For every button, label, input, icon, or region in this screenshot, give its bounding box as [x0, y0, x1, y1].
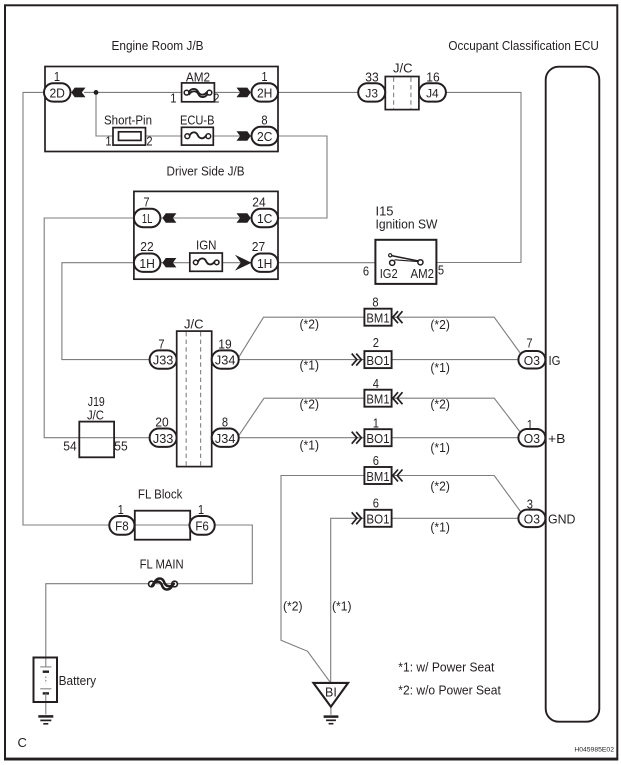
connector 2H: [252, 83, 279, 101]
wire 2D to battery feed (left vertical): [23, 92, 112, 525]
wire ECU-B to 2C: [212, 135, 240, 137]
wire BM1-6 right to O3 GND diagonal: [392, 476, 520, 512]
svg-text:(*2): (*2): [430, 479, 450, 494]
svg-text:O3: O3: [524, 354, 540, 368]
wire through FL Block: [133, 524, 191, 526]
WIRES LAYER: [23, 92, 521, 714]
connector O3 pin 3 GND: [518, 510, 545, 527]
svg-text:J/C: J/C: [184, 317, 204, 332]
svg-text:Driver Side J/B: Driver Side J/B: [167, 164, 245, 179]
svg-text:J3: J3: [365, 87, 378, 101]
svg-text:(*1): (*1): [300, 438, 320, 453]
svg-text:AM2: AM2: [186, 69, 210, 84]
arrow at 2H: [237, 88, 251, 98]
connector F8: [109, 516, 134, 535]
svg-text:Engine Room J/B: Engine Room J/B: [112, 38, 204, 53]
svg-text:1: 1: [170, 90, 176, 105]
wire IG row *2 branch via BM1-8: [238, 317, 365, 359]
svg-text:2: 2: [146, 134, 152, 149]
svg-text:BM1: BM1: [366, 469, 389, 484]
battery: [34, 658, 58, 703]
arrow at 1H left: [162, 258, 176, 267]
connector O3 pin 7 IG: [518, 351, 545, 369]
svg-text:1: 1: [54, 69, 60, 84]
svg-text:BO1: BO1: [366, 512, 389, 527]
svg-text:(*1): (*1): [300, 358, 320, 373]
arrow at 1H right: [235, 255, 252, 271]
connector 1C: [252, 209, 279, 227]
svg-text:7: 7: [143, 195, 149, 210]
svg-text:1C: 1C: [257, 212, 273, 226]
svg-text:J33: J33: [153, 432, 174, 446]
svg-text:8: 8: [222, 415, 228, 430]
svg-text:GND: GND: [548, 512, 576, 527]
svg-text:BM1: BM1: [366, 311, 389, 326]
connector BO1 pin 2: [352, 351, 392, 368]
svg-text:+B: +B: [548, 431, 566, 446]
connector J34 pin 8: [212, 429, 239, 447]
connector 2C: [252, 127, 279, 145]
svg-text:IG: IG: [549, 353, 561, 368]
svg-text:(*2): (*2): [283, 599, 303, 614]
svg-text:1: 1: [261, 69, 267, 84]
svg-text:2D: 2D: [49, 87, 65, 101]
svg-text:J34: J34: [215, 432, 236, 446]
wire IG row J34 to O3: [237, 359, 520, 361]
svg-text:6: 6: [363, 264, 369, 279]
svg-text:55: 55: [114, 439, 127, 454]
svg-text:33: 33: [365, 70, 378, 85]
svg-text:J4: J4: [426, 87, 439, 101]
wire battery to ground: [45, 700, 47, 715]
svg-text:Ignition SW: Ignition SW: [376, 217, 438, 232]
svg-text:F6: F6: [195, 519, 209, 533]
wire Short-Pin to ECU-B: [145, 135, 183, 137]
ground below BI: [324, 717, 339, 724]
wire 2H to J3: [276, 91, 360, 93]
svg-text:ECU-B: ECU-B: [180, 113, 215, 128]
connector BM1 pin 6: [364, 467, 402, 484]
svg-text:1: 1: [527, 417, 533, 432]
Driver Side J/B box: [134, 191, 278, 279]
wire 1H-27 to IG2 pin 6: [276, 262, 375, 264]
svg-text:BI: BI: [325, 686, 337, 700]
wire BM1-4 to O3 diagonal: [392, 398, 520, 432]
connector BM1 pin 4: [364, 390, 402, 407]
fusible link FL MAIN: [149, 578, 178, 589]
arrow at 1L: [162, 213, 176, 222]
ignition switch I15: [375, 240, 436, 284]
connector 2D: [44, 83, 71, 101]
svg-text:16: 16: [426, 70, 439, 85]
svg-text:20: 20: [155, 415, 168, 430]
wire +B row J34 to O3: [237, 437, 520, 439]
connector J4: [419, 83, 446, 101]
svg-text:(*1): (*1): [332, 599, 352, 614]
svg-text:BO1: BO1: [366, 431, 389, 446]
svg-text:2: 2: [373, 335, 379, 350]
svg-text:IGN: IGN: [196, 238, 217, 253]
svg-text:Battery: Battery: [59, 673, 97, 688]
svg-text:Short-Pin: Short-Pin: [104, 113, 152, 128]
svg-text:O3: O3: [524, 432, 540, 446]
svg-text:1: 1: [373, 416, 379, 431]
svg-text:1H: 1H: [139, 257, 155, 271]
wire junction drop to Short-Pin: [96, 92, 116, 136]
connector BM1 pin 8: [364, 309, 402, 326]
svg-text:(*1): (*1): [430, 520, 450, 535]
wire BI apex to ground: [330, 706, 332, 715]
fuse ECU-B: [182, 127, 214, 145]
connector O3 pin 1 +B: [518, 429, 545, 447]
svg-text:IG2: IG2: [380, 266, 398, 281]
ground below battery: [38, 716, 53, 723]
svg-text:5: 5: [438, 263, 444, 278]
svg-text:FL Block: FL Block: [138, 487, 183, 502]
svg-text:F8: F8: [115, 519, 129, 533]
svg-text:6: 6: [373, 496, 379, 511]
svg-text:8: 8: [372, 294, 378, 309]
connector F6: [190, 516, 215, 535]
svg-text:1: 1: [198, 502, 204, 517]
wire AM2 to 2H: [215, 91, 240, 93]
svg-text:(*1): (*1): [430, 440, 450, 455]
svg-text:2H: 2H: [257, 87, 273, 101]
wire F6 to FL MAIN to battery: [46, 525, 253, 658]
junction node at 2D branch: [94, 90, 99, 95]
svg-text:AM2: AM2: [411, 266, 435, 281]
svg-text:O3: O3: [524, 512, 540, 526]
svg-text:J/C: J/C: [87, 408, 104, 423]
svg-text:*1: w/ Power Seat: *1: w/ Power Seat: [398, 660, 494, 675]
svg-text:2C: 2C: [257, 130, 273, 144]
wire BO1-6 right to O3 GND: [392, 517, 520, 519]
junction connector J/C top box: [385, 77, 419, 110]
wire 1L to 1C interior: [158, 217, 254, 219]
connector 1H left: [134, 254, 161, 272]
wire J4 to ignition switch pin 5: [437, 92, 522, 262]
svg-text:C: C: [18, 735, 27, 750]
fuse IGN: [190, 253, 223, 271]
arrow at 2D: [71, 88, 85, 98]
wire 1H to IGN to 1H interior: [158, 262, 254, 264]
svg-text:7: 7: [526, 336, 532, 351]
junction connector J/C middle box: [177, 331, 212, 467]
svg-text:3: 3: [527, 496, 533, 511]
connector J33 pin 7: [150, 350, 177, 368]
wire BM1-8 to O3 diagonal: [392, 317, 520, 353]
svg-text:1: 1: [118, 502, 124, 517]
svg-text:(*2): (*2): [300, 397, 320, 412]
svg-text:*2: w/o Power Seat: *2: w/o Power Seat: [398, 683, 501, 698]
svg-text:FL MAIN: FL MAIN: [140, 557, 184, 572]
svg-text:(*1): (*1): [430, 360, 450, 375]
wire BO1-6 left to BI triangle: [331, 518, 366, 683]
svg-text:27: 27: [252, 239, 265, 254]
connector J3: [358, 83, 385, 101]
connector BO1 pin 6: [352, 510, 392, 527]
connector J34 pin 19: [212, 350, 239, 368]
svg-text:1: 1: [105, 134, 111, 149]
junction connector J19 box: [79, 422, 114, 458]
ground point BI triangle: [313, 683, 348, 707]
connector 1H right: [252, 254, 279, 272]
Occupant Classification ECU body U1: [546, 67, 600, 722]
FL Block box: [135, 511, 190, 540]
Short-Pin component: [113, 128, 146, 146]
svg-text:22: 22: [140, 239, 153, 254]
svg-text:BM1: BM1: [366, 392, 389, 407]
arrow at 1C: [237, 213, 251, 223]
connector 1L: [134, 209, 161, 227]
Engine Room J/B box: [45, 67, 278, 152]
svg-text:7: 7: [158, 337, 164, 352]
svg-text:Occupant Classification ECU: Occupant Classification ECU: [448, 38, 599, 53]
svg-text:J34: J34: [215, 354, 236, 368]
wire 1L to J19 to J33-20 row: [44, 218, 151, 438]
arrow at 2C: [237, 131, 251, 141]
svg-text:2: 2: [213, 91, 219, 106]
svg-text:4: 4: [373, 376, 379, 391]
svg-text:1H: 1H: [257, 257, 273, 271]
svg-text:(*2): (*2): [430, 397, 450, 412]
connector J33 pin 20: [150, 429, 177, 447]
wire 2D arrow to AM2 fuse: [84, 91, 184, 93]
svg-text:(*2): (*2): [430, 317, 450, 332]
svg-text:1L: 1L: [142, 212, 153, 226]
svg-text:(*2): (*2): [300, 317, 320, 332]
svg-text:J/C: J/C: [393, 61, 413, 76]
svg-text:H045985E02: H045985E02: [574, 746, 614, 753]
svg-text:24: 24: [252, 195, 265, 210]
svg-text:54: 54: [63, 439, 76, 454]
svg-text:J33: J33: [153, 354, 174, 368]
wire 1H-22 to J33-7: [62, 263, 151, 360]
svg-text:8: 8: [261, 112, 267, 127]
wire BM1-6 left to BI triangle: [281, 476, 364, 683]
svg-text:BO1: BO1: [366, 353, 389, 368]
wire 2C to 1C: [276, 136, 327, 218]
connector BO1 pin 1: [352, 429, 392, 446]
svg-text:6: 6: [373, 453, 379, 468]
wire +B row *2 branch via BM1-4: [238, 398, 365, 437]
svg-text:19: 19: [218, 337, 231, 352]
fuse AM2: [182, 83, 215, 102]
